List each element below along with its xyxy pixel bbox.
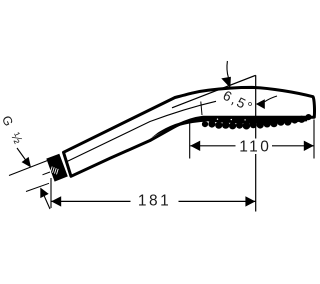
thread lower arrowhead (40, 188, 48, 199)
nozzle band white speckles (217, 119, 246, 121)
angle arrow right head (256, 99, 265, 109)
thread axis stub line (43, 172, 51, 175)
181 left arrowhead (51, 196, 61, 206)
thread lower arrow tail (42, 191, 50, 209)
G 1/2 leader arrowhead (22, 157, 31, 168)
110 right arrowhead (304, 141, 314, 151)
angle arrow upper tail (227, 61, 228, 78)
spray face nozzle band (202, 114, 312, 130)
181 right arrowhead (245, 196, 255, 206)
svg-text:181: 181 (138, 193, 171, 210)
6.5 degree reference line (172, 75, 256, 108)
hand shower body outline (64, 87, 315, 176)
svg-text:110: 110 (239, 138, 271, 155)
181 extension line (50, 178, 52, 208)
handle inner highlight line (67, 101, 216, 161)
angle arrow upper head (221, 77, 231, 88)
G 1/2 label (0, 114, 16, 129)
head center extension line (255, 75, 257, 211)
181 label (131, 194, 179, 209)
G 1/2 leader line (17, 148, 26, 161)
neck shadow swoosh (151, 118, 205, 138)
spray face edge tick (201, 102, 202, 116)
thread OD upper extension line (9, 161, 48, 176)
110 right extension line (313, 120, 315, 159)
G1/2 thread block (46, 154, 68, 182)
110 left extension line (189, 124, 191, 159)
110 left arrowhead (190, 141, 200, 151)
thread OD lower extension line (26, 183, 49, 191)
thread hatch marks (51, 167, 59, 175)
110 dimension line (190, 145, 314, 147)
110 label (236, 139, 273, 155)
181 dimension line (51, 200, 255, 202)
angle arrow right tail (265, 96, 278, 102)
